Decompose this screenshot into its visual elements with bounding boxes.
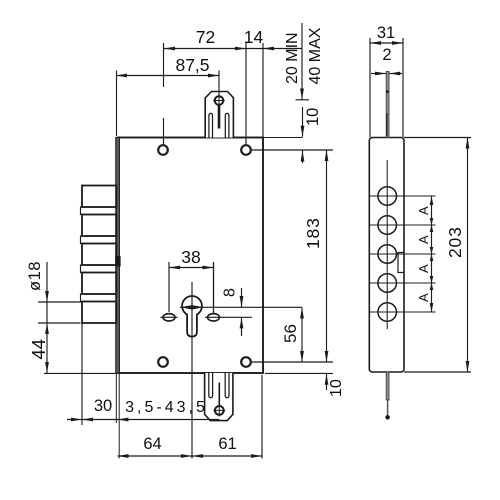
bottom tab slot line — [218, 383, 220, 407]
dimension 38 — [169, 267, 214, 269]
svg-text:A: A — [416, 293, 431, 302]
bottom mounting tab — [205, 373, 233, 421]
dimension 31 — [370, 42, 403, 44]
svg-text:38: 38 — [181, 247, 200, 267]
svg-text:44: 44 — [28, 339, 49, 360]
svg-text:30: 30 — [94, 397, 112, 415]
dimension 10 bottom — [265, 372, 333, 374]
svg-text:A: A — [416, 235, 431, 244]
svg-text:A: A — [416, 206, 431, 215]
dimension o18 / 44 — [46, 262, 48, 302]
side view faceplate top strip — [386, 72, 389, 138]
dimension 72 — [164, 48, 246, 50]
lock body outline (front view) — [118, 138, 263, 374]
svg-text:20 MIN: 20 MIN — [284, 32, 301, 84]
side view case — [369, 138, 404, 373]
dimension 203 — [404, 137, 471, 139]
side bolt circle 3 — [378, 245, 397, 264]
svg-text:87,5: 87,5 — [175, 55, 209, 75]
svg-text:3,5-43,5: 3,5-43,5 — [125, 399, 208, 416]
dimension 10 top — [302, 107, 304, 137]
bolt spacer band 2 — [81, 236, 117, 244]
svg-text:72: 72 — [196, 27, 215, 47]
svg-text:ø18: ø18 — [26, 261, 44, 291]
screw hole bottom-left — [158, 357, 168, 367]
svg-text:14: 14 — [244, 27, 264, 47]
side bolt circle 4 — [378, 274, 397, 293]
dimension 14 — [246, 48, 302, 50]
deadbolt 4 — [82, 273, 116, 295]
top tab screw — [215, 96, 224, 105]
euro cylinder keyhole — [182, 296, 202, 337]
top tab slot right — [225, 113, 229, 137]
deadbolt 2 — [82, 215, 116, 237]
side bolt circle 1 — [378, 187, 397, 206]
bolt spacer band 3 — [81, 265, 117, 273]
deadbolt 1 — [82, 186, 116, 208]
oblong fixing hole right — [208, 314, 220, 321]
screw hole top-left — [158, 145, 168, 155]
svg-text:203: 203 — [445, 226, 465, 258]
svg-text:2: 2 — [382, 46, 391, 64]
bottom tab slot right — [225, 373, 229, 398]
deadbolt 5 — [82, 302, 116, 324]
bottom tab screw — [215, 406, 224, 415]
bolt spacer band 1 — [81, 207, 117, 215]
svg-text:A: A — [416, 264, 431, 273]
side bolt circle 2 — [378, 216, 397, 235]
svg-text:56: 56 — [281, 324, 300, 343]
screw hole bottom-right — [241, 357, 251, 367]
svg-text:61: 61 — [218, 435, 236, 453]
cylinder horizontal centerline to 56 dim — [180, 306, 302, 308]
side view centerline — [386, 160, 388, 329]
side view faceplate bottom strip — [386, 372, 389, 400]
svg-text:31: 31 — [377, 24, 395, 42]
svg-text:10: 10 — [304, 108, 322, 126]
svg-text:40 MAX: 40 MAX — [307, 27, 324, 84]
bottom tab slot left — [209, 373, 213, 398]
oblong fixing hole left — [163, 314, 175, 321]
dimension 2 — [371, 73, 386, 75]
top mounting tab — [205, 92, 233, 138]
top tab adjustment slot line — [218, 104, 221, 129]
latch detail dark patch on faceplate — [115, 256, 120, 267]
svg-text:64: 64 — [143, 435, 161, 453]
faceplate edge bar (front view) — [116, 138, 120, 374]
deadbolt 3 — [82, 244, 116, 266]
top tab slot left — [209, 113, 213, 137]
dimension 56 — [301, 308, 303, 363]
side view latch notch — [398, 253, 404, 273]
svg-text:183: 183 — [303, 217, 323, 249]
svg-text:8: 8 — [222, 288, 239, 297]
bolt spacer band 4 — [81, 294, 117, 302]
dimension 30 and 3,5-43,5 — [67, 419, 220, 421]
cylinder vertical centerline — [191, 282, 193, 345]
screw hole top-right — [241, 145, 251, 155]
dimension 20 MIN / 40 MAX — [301, 23, 303, 100]
dimension 8 — [241, 288, 243, 307]
side bolt circle 5 — [378, 303, 397, 322]
dimension 64 / 61 — [118, 455, 263, 457]
dimension 87,5 — [116, 75, 219, 77]
dimension A chain — [431, 196, 433, 312]
svg-text:10: 10 — [328, 379, 345, 397]
dimension 183 — [252, 149, 333, 151]
